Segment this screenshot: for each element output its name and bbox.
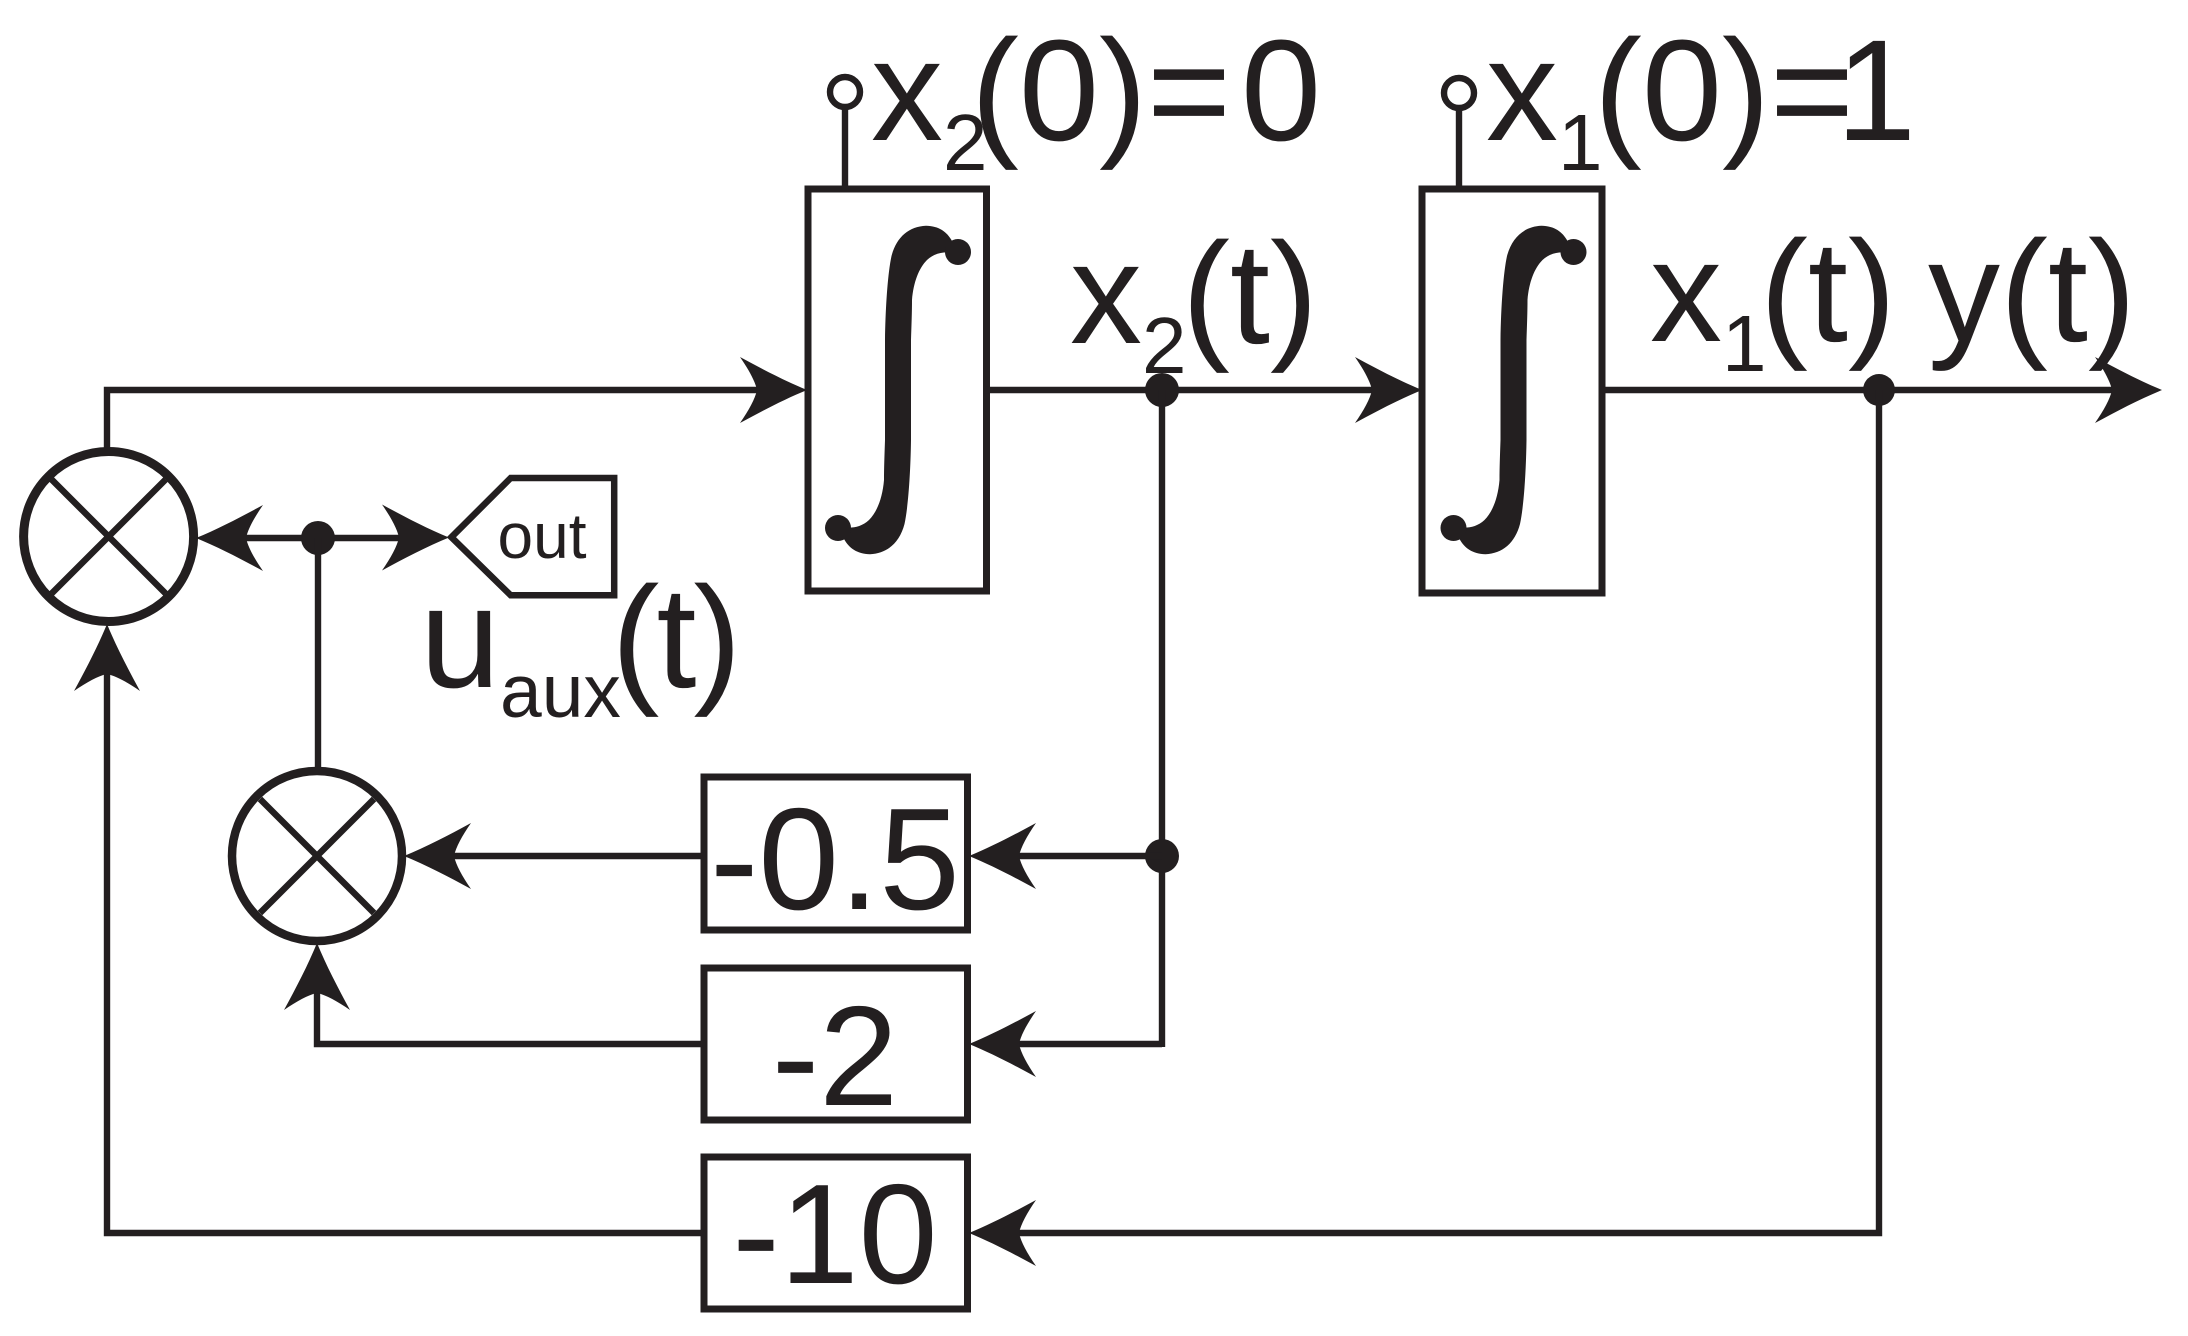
arrow into S2 right side [404, 823, 471, 889]
svg-text:aux: aux [500, 649, 621, 733]
gain block -10 [704, 1157, 968, 1309]
arrow into S1 bottom [74, 624, 140, 691]
arrow into gain -0.5 [969, 823, 1036, 889]
svg-text:-2: -2 [772, 977, 898, 1136]
arrow into gain -2 [969, 1011, 1036, 1077]
arrow into integrator I2 input [740, 357, 807, 423]
arrow into gain -10 [969, 1200, 1036, 1266]
integrator I2 (d x2/dt block) [808, 189, 987, 591]
wire from gain -0.5 output to multiplier S2 [450, 853, 704, 859]
wire main feed from summer to first integrator [107, 390, 761, 451]
svg-text:-0.5: -0.5 [710, 778, 960, 940]
arrow into S2 bottom [284, 943, 350, 1010]
wire from node down to multiplier S2 [315, 538, 321, 771]
integrator I1 (dx1/dt block) [1422, 189, 1602, 593]
wire from gain -10 output up into S1 bottom [107, 670, 704, 1233]
wire from y node down to gain -10 [1015, 390, 1879, 1233]
svg-text:-10: -10 [732, 1155, 937, 1314]
arrow into integrator I1 input [1355, 357, 1422, 423]
svg-text:x1(t): x1(t) [1650, 211, 1896, 388]
svg-text:y(t): y(t) [1928, 211, 2136, 372]
integral symbol of integrator I2 [825, 226, 971, 554]
gain block -2 [704, 968, 968, 1120]
svg-text:x2(t): x2(t) [1070, 213, 1318, 390]
gain block -0.5 [704, 777, 968, 930]
wire from x2 branch bottom into gain -2 [1015, 1041, 1162, 1047]
wire output y from integrator I1 [1602, 387, 2116, 393]
svg-text:x1(0)=1: x1(0)=1 [1486, 10, 1916, 187]
initial condition pin circle x2(0) [830, 77, 860, 107]
node on x2 branch [1145, 839, 1179, 873]
x2 feedback branch wire down [1159, 390, 1165, 1047]
wire from gain -2 output up into S2 bottom [317, 989, 704, 1044]
output arrowhead y(t) [2095, 357, 2162, 423]
node y tap on output line [1863, 374, 1895, 406]
IC stem wire to integrator I2 [842, 108, 848, 190]
wire x2 from integrator I2 to integrator I1 [986, 387, 1376, 393]
svg-text:x2(0)=0: x2(0)=0 [871, 10, 1321, 187]
arrow into S1 right side [196, 505, 263, 571]
initial condition pin circle x1(0) [1444, 78, 1474, 108]
svg-text:(t): (t) [612, 557, 739, 718]
integral symbol of integrator I1 [1441, 226, 1587, 554]
svg-text:u: u [420, 557, 500, 718]
IC stem wire to integrator I1 [1456, 109, 1462, 190]
double-headed wire between S1 and out port [242, 535, 403, 541]
multiplier S2 (lower) [232, 771, 402, 941]
arrow into out port [382, 505, 449, 571]
summing junction S1 (top left multiplier) [24, 452, 194, 622]
out port pentagon [451, 478, 614, 595]
svg-text:out: out [498, 500, 587, 572]
node on u_aux wire [301, 521, 335, 555]
node x2 tap on main line [1145, 373, 1179, 407]
wire from x2 branch node into gain -0.5 [1015, 853, 1162, 859]
